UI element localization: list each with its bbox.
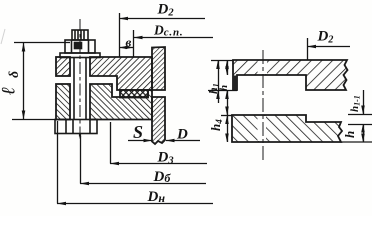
svg-text:D2: D2	[317, 29, 334, 46]
svg-text:ℓδ: ℓδ	[0, 71, 21, 95]
svg-text:h: h	[342, 131, 357, 138]
svg-text:Dс.п.: Dс.п.	[153, 23, 183, 39]
svg-text:D3: D3	[157, 150, 174, 167]
svg-text:D2: D2	[157, 2, 175, 19]
svg-text:Dн: Dн	[147, 189, 166, 205]
svg-text:S: S	[133, 122, 143, 142]
svg-text:D: D	[176, 127, 188, 143]
svg-text:Dб: Dб	[153, 169, 172, 185]
svg-text:h4: h4	[208, 119, 224, 131]
svg-text:h1-1: h1-1	[349, 95, 362, 112]
svg-text:в: в	[126, 35, 132, 50]
svg-text:h: h	[218, 85, 230, 91]
